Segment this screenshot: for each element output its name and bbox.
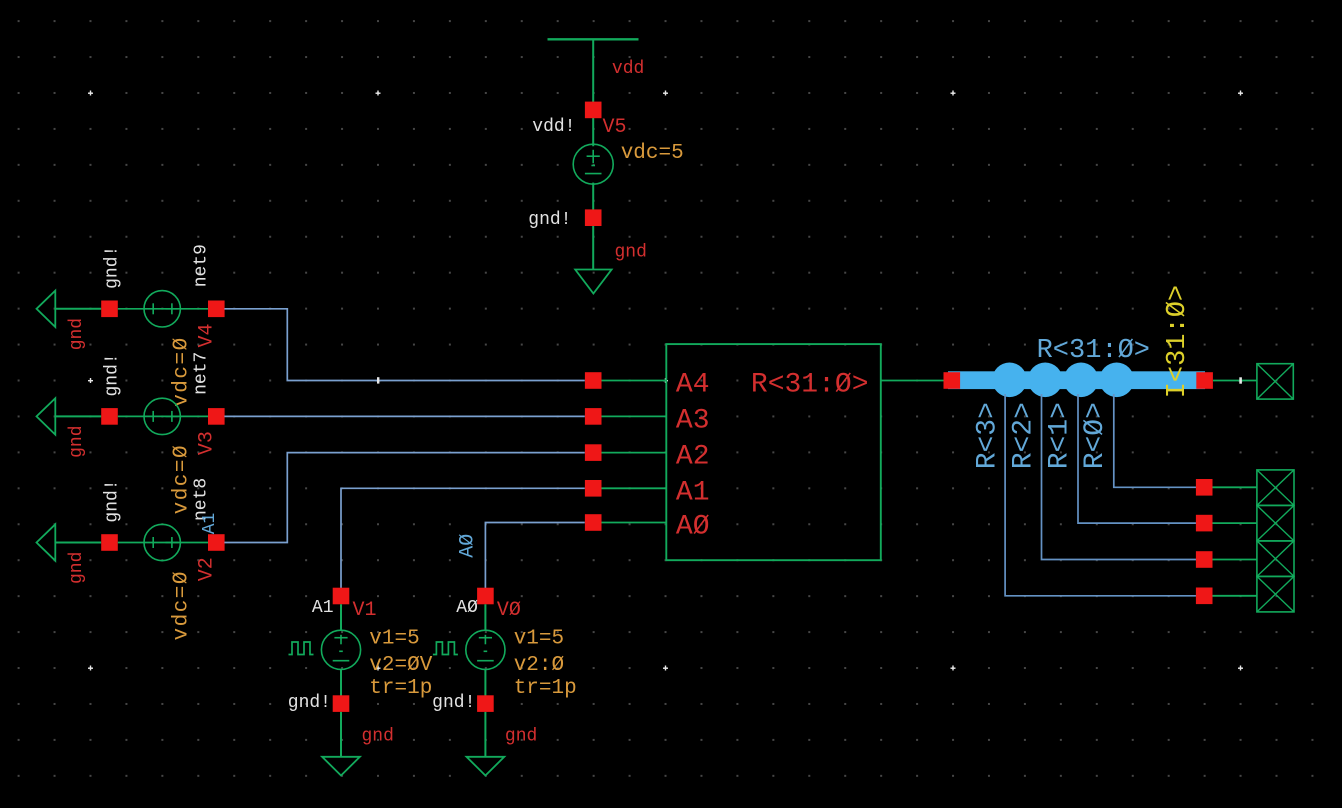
svg-text:gnd: gnd — [67, 425, 87, 457]
svg-text:I<31:Ø>: I<31:Ø> — [1163, 285, 1193, 398]
wire pin A1 stub — [602, 487, 667, 489]
vsource V1 — [321, 630, 360, 669]
svg-text:vdd!: vdd! — [532, 117, 575, 137]
pin R output square — [944, 372, 961, 389]
svg-text:R<31:Ø>: R<31:Ø> — [751, 370, 869, 401]
vsource V2 — [144, 524, 180, 560]
svg-text:A3: A3 — [676, 405, 710, 436]
svg-text:gnd!: gnd! — [103, 479, 123, 522]
svg-text:vdc=5: vdc=5 — [621, 142, 684, 165]
vsource VØ — [466, 630, 505, 669]
ground symbol (V5) — [575, 270, 611, 294]
svg-text:gnd: gnd — [615, 243, 647, 263]
svg-text:V2: V2 — [195, 557, 218, 581]
svg-text:R<31:Ø>: R<31:Ø> — [1037, 336, 1150, 366]
pin AØ square — [585, 514, 602, 531]
wire V3 to pin A3 — [224, 415, 584, 417]
svg-text:v1=5: v1=5 — [514, 627, 564, 650]
wire pin AØ stub — [602, 522, 667, 524]
pin bit square R<2> — [1196, 551, 1213, 568]
pin A2 square — [585, 444, 602, 461]
pulse icon (V1) — [289, 642, 314, 655]
pin bit square R<3> — [1196, 588, 1213, 605]
svg-text:gnd: gnd — [67, 318, 87, 350]
block U1 outline — [666, 344, 881, 560]
wire bit stub R<0> — [1213, 486, 1257, 488]
ground symbol (V3) — [37, 398, 56, 434]
svg-text:tr=1p: tr=1p — [514, 677, 577, 700]
svg-text:AØ: AØ — [456, 598, 478, 618]
svg-text:AØ: AØ — [676, 512, 710, 543]
svg-text:AØ: AØ — [457, 534, 480, 558]
svg-text:v2:Ø: v2:Ø — [514, 654, 564, 677]
pin vdd! of V5 — [585, 102, 602, 119]
svg-text:V3: V3 — [195, 431, 218, 455]
wire pin A3 stub — [602, 415, 667, 417]
pin plus of V4 — [208, 301, 225, 318]
pin gnd! of V2 — [101, 534, 118, 551]
wire bit R<1> — [1078, 394, 1196, 523]
wire bit R<2> — [1042, 394, 1197, 560]
grid cross on wire to noConn — [1239, 377, 1242, 383]
vsource V5 — [573, 144, 613, 184]
pin gnd! of V4 — [101, 301, 118, 318]
svg-text:R<1>: R<1> — [1044, 402, 1075, 469]
wire VØ to ground — [484, 712, 486, 757]
noConn symbol bit 1 — [1257, 541, 1294, 577]
svg-text:net9: net9 — [192, 244, 212, 287]
wire block output R — [881, 380, 944, 382]
svg-text:gnd: gnd — [362, 727, 394, 747]
svg-text:A1: A1 — [312, 598, 334, 618]
svg-text:vdd: vdd — [612, 59, 644, 79]
wire V1 bottom — [340, 669, 342, 696]
svg-text:v1=5: v1=5 — [369, 627, 419, 650]
wire bus to noConn — [1213, 380, 1257, 382]
ground symbol (V4) — [37, 291, 56, 327]
vsource V3 — [144, 398, 180, 434]
svg-text:v2=ØV: v2=ØV — [369, 654, 432, 677]
svg-text:A2: A2 — [676, 442, 710, 473]
wire bit stub R<2> — [1213, 559, 1257, 561]
pin plus of V3 — [208, 408, 225, 425]
wire V1 top — [340, 604, 342, 631]
wire V2 to pin A2 — [224, 453, 584, 543]
wire V5 to ground — [592, 226, 594, 270]
wire V3 body — [118, 415, 208, 417]
wire V5 to gnd pin — [592, 183, 594, 210]
bus tap dot R<1> — [1064, 363, 1099, 398]
ground symbol (V2) — [37, 524, 56, 560]
wire pin A4 stub — [602, 380, 667, 382]
bus R<31:0> — [948, 371, 1205, 389]
ground symbol (VØ) — [467, 757, 505, 776]
grid cross on wire A4 — [377, 377, 379, 383]
svg-text:A1: A1 — [676, 477, 710, 508]
pin bit square R<1> — [1196, 515, 1213, 532]
svg-text:gnd!: gnd! — [103, 246, 123, 289]
wire VØ bottom — [484, 669, 486, 696]
wire VØ top — [484, 604, 486, 631]
svg-text:R<Ø>: R<Ø> — [1080, 402, 1111, 469]
vsource V4 — [144, 291, 180, 327]
wire ground to V2 minus pin — [55, 542, 101, 544]
bus tap dot R<0> — [1099, 363, 1134, 398]
svg-text:gnd!: gnd! — [432, 693, 475, 713]
noConn symbol bit 2 — [1257, 505, 1294, 541]
svg-text:net7: net7 — [192, 352, 212, 395]
wire ground to V3 minus pin — [55, 415, 101, 417]
wire V1 to ground — [340, 712, 342, 757]
pin gnd! of V5 — [585, 209, 602, 226]
bus tap dot R<3> — [992, 363, 1027, 398]
pin gnd! of V1 — [333, 695, 350, 712]
svg-text:tr=1p: tr=1p — [369, 677, 432, 700]
pin gnd! of V3 — [101, 408, 118, 425]
wire V0 to pin A0 — [485, 523, 584, 589]
wire V1 to pin A1 — [341, 488, 585, 588]
pin AØ square (source top) — [477, 588, 494, 605]
wire V2 body — [118, 542, 208, 544]
svg-text:V5: V5 — [603, 116, 627, 139]
bus tap dot R<2> — [1028, 363, 1063, 398]
svg-text:R<3>: R<3> — [973, 402, 1004, 469]
wire vdd rail to V5 — [592, 39, 594, 146]
pin A4 square — [585, 372, 602, 389]
pin A1 square — [585, 480, 602, 497]
svg-text:R<2>: R<2> — [1009, 402, 1040, 469]
noConn symbol bit 0 — [1257, 576, 1294, 612]
wire bit stub R<1> — [1213, 522, 1257, 524]
pin plus of V2 — [208, 534, 225, 551]
pin bit square R<0> — [1196, 479, 1213, 496]
svg-text:V4: V4 — [195, 323, 218, 347]
pin bus right square — [1196, 372, 1213, 389]
svg-text:gnd!: gnd! — [528, 210, 571, 230]
noConn symbol (bus) — [1257, 364, 1293, 399]
svg-text:A4: A4 — [676, 370, 710, 401]
svg-text:vdc=Ø: vdc=Ø — [171, 570, 194, 641]
wire V4 body — [118, 308, 208, 310]
wire V4 to pin A4 — [224, 309, 584, 381]
svg-text:vdc=Ø: vdc=Ø — [171, 336, 194, 407]
pin gnd! of VØ — [477, 695, 494, 712]
wire pin A2 stub — [602, 452, 667, 454]
svg-text:gnd: gnd — [505, 727, 537, 747]
svg-text:gnd!: gnd! — [288, 693, 331, 713]
wire bit R<3> — [1005, 394, 1196, 596]
noConn symbol bit 3 — [1257, 470, 1294, 506]
svg-text:vdc=Ø: vdc=Ø — [171, 444, 194, 515]
svg-text:V1: V1 — [353, 599, 377, 622]
pin A3 square — [585, 408, 602, 425]
svg-text:gnd!: gnd! — [103, 353, 123, 396]
wire bit R<0> — [1114, 394, 1196, 487]
pin A1 square (source top) — [333, 588, 350, 605]
svg-text:VØ: VØ — [497, 599, 521, 622]
wire vdd rail — [548, 38, 639, 40]
svg-text:gnd: gnd — [67, 552, 87, 584]
svg-text:A1: A1 — [200, 513, 220, 535]
pulse icon (VØ) — [433, 642, 458, 655]
wire ground to V4 minus pin — [55, 308, 101, 310]
ground symbol (V1) — [322, 757, 360, 776]
wire bit stub R<3> — [1213, 595, 1257, 597]
